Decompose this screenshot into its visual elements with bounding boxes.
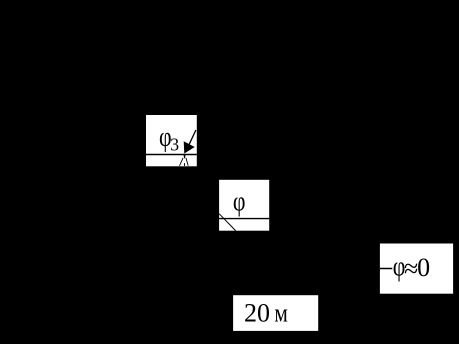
- small figure right leg below phi3 line: [186, 158, 188, 166]
- label text zero: [417, 253, 430, 282]
- arrow shaft into phi3 box: [189, 130, 196, 144]
- label box phi approx 0: [380, 244, 453, 294]
- label box 20 m: [233, 295, 318, 331]
- arrow tip poking below line: [184, 155, 186, 158]
- label text approx sign: [404, 254, 418, 283]
- leader line to phi approx 0: [380, 268, 392, 270]
- svg-text:0: 0: [417, 253, 430, 282]
- label subscript 3 of phi3: [170, 135, 179, 155]
- label text 20: [244, 299, 270, 328]
- label box phi3: [146, 115, 197, 166]
- label text phi of phi approx 0: [393, 252, 406, 282]
- svg-text:3: 3: [170, 135, 179, 155]
- arrowhead at phi3 line: [184, 141, 195, 153]
- label box phi: [219, 180, 269, 231]
- svg-text:20: 20: [244, 299, 270, 328]
- equipotential line through phi box: [219, 218, 269, 220]
- svg-text:м: м: [274, 299, 287, 327]
- label text phi of phi3: [159, 123, 172, 153]
- label text phi: [233, 187, 246, 217]
- small figure middle dash below phi3 line: [183, 163, 185, 166]
- diagonal line in phi box corner: [219, 214, 235, 231]
- equipotential line through phi3 box: [146, 154, 197, 156]
- label text m (cyrillic): [274, 299, 287, 327]
- small figure left leg below phi3 line: [180, 158, 184, 166]
- svg-text:φ: φ: [233, 187, 246, 217]
